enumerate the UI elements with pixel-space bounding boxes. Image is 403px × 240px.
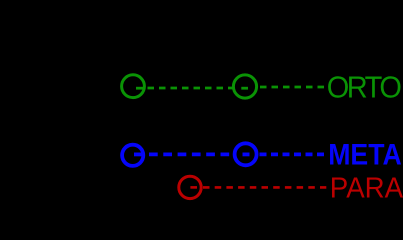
label META [328,138,402,171]
green fragment inside circle 2 [241,87,248,90]
red fragment inside circle [190,186,197,189]
green dashed wire circle2-label [260,86,326,89]
label PARA [330,172,403,205]
blue dashed wire circle2-label [260,152,327,156]
meta circle 1 (blue, left) [122,145,143,166]
blue dashed wire circle1-circle2 [149,152,234,156]
svg-text:META: META [328,138,402,171]
ortho circle 1 (green, left) [122,75,145,98]
svg-text:PARA: PARA [330,172,403,201]
para circle (red) [179,176,201,198]
blue fragment inside circle 2 [243,153,250,157]
green fragment inside circle 1 [136,87,143,90]
blue fragment inside circle 1 [134,153,145,157]
ortho circle 2 (green, right) [233,75,256,98]
svg-text:ORTO: ORTO [327,71,401,105]
label ORTO [327,71,401,105]
meta circle 2 (blue, right) [235,143,257,165]
green dashed wire circle1-circle2 [148,87,234,90]
red dashed wire circle-label [203,186,326,189]
